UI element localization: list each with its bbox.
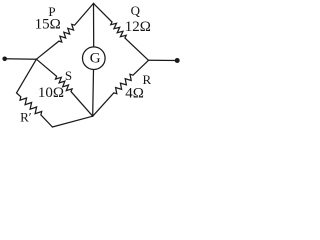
wire galvanometer down to node D xyxy=(92,70,95,117)
resistor P 15 ohm (arm B to A) xyxy=(36,3,93,59)
svg-text:Q: Q xyxy=(131,3,141,18)
svg-text:S: S xyxy=(65,68,72,83)
resistor R 4 ohm (arm C to D) xyxy=(93,60,149,116)
svg-text:R′: R′ xyxy=(20,109,32,124)
svg-text:10Ω: 10Ω xyxy=(38,85,64,101)
wire node B down-left to corner E xyxy=(17,59,37,93)
node: left terminal dot xyxy=(2,57,7,62)
wire node C to right terminal xyxy=(149,59,178,61)
svg-text:G: G xyxy=(90,50,101,66)
resistor Q 12 ohm (arm A to C) xyxy=(94,3,149,60)
galvanometer G circle xyxy=(83,47,106,70)
wire apex A down to galvanometer xyxy=(93,3,95,47)
resistor S 10 ohm (arm B to D) xyxy=(36,59,92,116)
svg-text:4Ω: 4Ω xyxy=(125,86,144,102)
svg-text:12Ω: 12Ω xyxy=(125,19,151,35)
wire corner F up-right to node D xyxy=(52,116,92,127)
wire left terminal to node B xyxy=(5,58,37,60)
node: right terminal dot xyxy=(175,58,180,63)
svg-text:15Ω: 15Ω xyxy=(35,17,61,33)
resistor R-prime (zigzag between E and corner F) xyxy=(17,93,53,127)
